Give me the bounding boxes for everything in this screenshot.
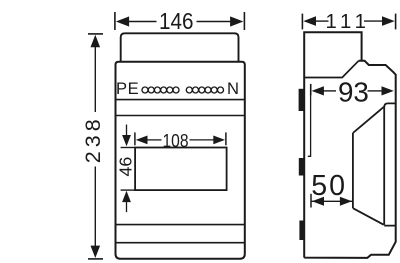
terminal strip: PE ring row 1 — [142, 87, 179, 93]
svg-text:238: 238 — [81, 119, 105, 163]
dimension 93: left arrow — [312, 86, 324, 95]
dimension 111: right arrow — [382, 16, 395, 26]
terminal strip: N ring row 2 — [186, 87, 223, 93]
side view: base/lid seam line — [304, 61, 358, 78]
dimension 146: right arrow — [230, 16, 243, 26]
dimension 93: right arrow — [382, 86, 394, 95]
dimension 108: right arrow — [213, 136, 225, 145]
dimension 46: lower arrow pointing up — [122, 191, 131, 202]
dimension 238: up arrow — [91, 35, 101, 47]
dimension 108: right terminator tick — [225, 132, 227, 145]
side view: outer profile outline — [304, 32, 396, 258]
dimension 93: left terminator tick — [310, 84, 312, 95]
front view: lower horizontal seam line — [116, 242, 245, 244]
svg-text:111: 111 — [325, 11, 366, 33]
side view: lid top slope — [353, 106, 385, 133]
svg-text:PE: PE — [116, 79, 139, 98]
front view: DIN-rail cutout window — [135, 148, 227, 191]
dimension 46: upper arrow pointing down — [126, 125, 128, 136]
dimension 146: left terminator tick — [114, 12, 116, 30]
dimension 108: left terminator tick — [134, 132, 136, 145]
svg-text:108: 108 — [163, 130, 189, 151]
dimension 111: right terminator tick — [395, 14, 397, 30]
46 dimension: extension tick at window bottom — [121, 189, 136, 191]
front view: enclosure body outline — [116, 62, 245, 259]
side view: mounting tab 2 — [299, 158, 305, 176]
side view: inner wall line — [308, 95, 311, 156]
svg-text:93: 93 — [338, 77, 369, 108]
side view: lid bottom slope — [353, 208, 384, 225]
dimension 238: down arrow — [91, 246, 101, 258]
side view: mounting tab 1 — [299, 89, 305, 111]
side view: lid front face — [352, 133, 354, 208]
front view: lid / cover top cap — [121, 33, 239, 62]
dimension 108: left arrow — [136, 136, 148, 145]
dimension 50: left terminator tick — [310, 194, 312, 208]
front view: horizontal seam line below window area — [116, 224, 245, 226]
front view: horizontal seam line below terminal strip — [116, 99, 245, 101]
side view: mounting tab 3 — [299, 221, 305, 241]
svg-text:146: 146 — [159, 8, 194, 34]
dimension 238: bottom terminator tick — [88, 258, 103, 260]
dimension 146: right terminator tick — [243, 12, 245, 30]
dimension 111: left arrow — [303, 16, 316, 26]
side view: lid back panel — [384, 103, 396, 225]
46 dimension: extension tick at window top — [121, 147, 136, 149]
dimension 111: left terminator tick — [301, 14, 303, 30]
svg-text:N: N — [227, 79, 239, 98]
front view: horizontal seam line above window area — [116, 115, 245, 117]
dimension 50: double arrow line — [312, 200, 353, 202]
dimension 146: left arrow — [116, 16, 129, 26]
dimension 238: top terminator tick — [88, 33, 103, 35]
svg-text:46: 46 — [116, 157, 136, 177]
